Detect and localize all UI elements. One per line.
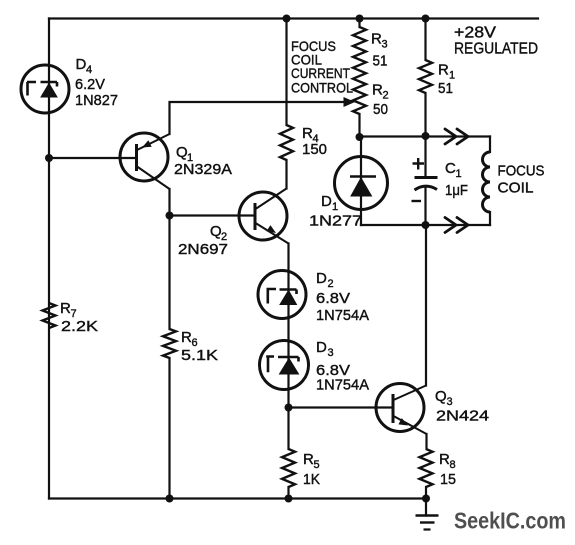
svg-text:4: 4 [86, 64, 92, 76]
svg-text:C: C [445, 160, 456, 177]
svg-text:2N697: 2N697 [178, 241, 228, 258]
svg-text:5: 5 [314, 459, 320, 471]
svg-text:R: R [439, 451, 450, 468]
svg-text:15: 15 [440, 471, 456, 488]
svg-text:Q: Q [176, 144, 188, 161]
svg-text:R: R [60, 300, 71, 317]
svg-text:FOCUS: FOCUS [498, 164, 545, 180]
svg-text:6.8V: 6.8V [316, 290, 350, 307]
svg-text:R: R [302, 125, 313, 142]
svg-text:1: 1 [456, 168, 462, 180]
svg-text:150: 150 [302, 141, 327, 158]
svg-text:Q: Q [210, 223, 222, 240]
svg-text:2: 2 [328, 278, 334, 290]
svg-text:1N754A: 1N754A [316, 307, 369, 324]
svg-text:1N827: 1N827 [75, 92, 118, 109]
svg-text:3: 3 [382, 39, 388, 51]
svg-text:2: 2 [383, 90, 389, 102]
svg-text:51: 51 [438, 80, 453, 97]
svg-text:2N424: 2N424 [436, 408, 489, 425]
svg-text:50: 50 [373, 101, 388, 118]
svg-text:REGULATED: REGULATED [454, 41, 538, 58]
svg-text:R: R [438, 62, 449, 79]
svg-text:CONTROL: CONTROL [291, 80, 353, 96]
svg-text:1N754A: 1N754A [316, 377, 369, 394]
svg-text:Q: Q [435, 388, 447, 405]
svg-text:D: D [321, 193, 332, 210]
svg-text:1: 1 [332, 201, 338, 213]
svg-text:R: R [371, 31, 382, 48]
svg-text:D: D [316, 339, 327, 356]
svg-text:D: D [316, 270, 327, 287]
svg-text:6.2V: 6.2V [75, 76, 105, 93]
svg-text:R: R [303, 451, 314, 468]
svg-text:5.1K: 5.1K [181, 347, 218, 364]
svg-text:1N277: 1N277 [309, 213, 362, 230]
svg-text:D: D [76, 56, 87, 73]
svg-text:SeekIC.com: SeekIC.com [454, 508, 566, 534]
svg-text:2N329A: 2N329A [174, 161, 232, 178]
svg-text:8: 8 [450, 459, 456, 471]
svg-text:1μF: 1μF [445, 182, 468, 199]
svg-text:+28V: +28V [454, 25, 497, 42]
svg-text:3: 3 [447, 396, 453, 408]
svg-text:2.2K: 2.2K [61, 318, 98, 335]
svg-text:1K: 1K [303, 471, 320, 488]
svg-text:51: 51 [373, 53, 388, 70]
svg-text:COIL: COIL [498, 181, 534, 197]
svg-text:R: R [372, 82, 383, 99]
svg-text:3: 3 [328, 347, 334, 359]
svg-text:R: R [181, 329, 192, 346]
